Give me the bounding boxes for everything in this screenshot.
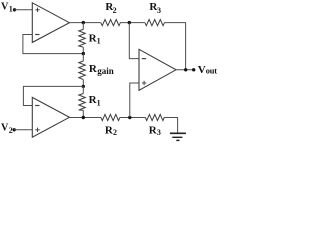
ground bbox=[170, 133, 186, 140]
svg-text:1: 1 bbox=[97, 37, 101, 46]
wire U1 feedback: - input to R1/Rgain node bbox=[23, 35, 83, 54]
op-amp U2 (bottom left) bbox=[32, 97, 69, 137]
wire R2 to node A bbox=[120, 22, 144, 24]
svg-text:1: 1 bbox=[97, 98, 101, 107]
svg-text:V: V bbox=[198, 64, 206, 76]
resistor R1 (top) bbox=[79, 23, 101, 54]
resistor R1 (bottom) bbox=[79, 86, 101, 117]
svg-text:2: 2 bbox=[113, 6, 117, 15]
resistor R3 (bottom) bbox=[145, 114, 164, 137]
input terminal V2 bbox=[1, 122, 16, 135]
wire R3 to ground bbox=[164, 118, 177, 134]
wire U2 feedback: Rgain node to - input bbox=[23, 86, 83, 105]
wire U1 output to top row bbox=[69, 22, 100, 24]
wire R3 to U3 output (feedback) bbox=[165, 23, 186, 70]
input terminal V1 bbox=[1, 2, 16, 14]
node Rgain/R1 junction bbox=[82, 85, 85, 88]
node R1/Rgain junction bbox=[82, 52, 85, 55]
resistor R2 (top) bbox=[101, 1, 121, 26]
wire V2 to op-amp U2 + input bbox=[14, 129, 32, 131]
node feedback/output junction bbox=[184, 68, 187, 71]
resistor R2 (bottom) bbox=[101, 114, 120, 137]
svg-text:2: 2 bbox=[113, 128, 117, 137]
node U1 output / R1 top bbox=[82, 21, 85, 24]
output terminal Vout bbox=[192, 64, 217, 76]
op-amp U3 (right) bbox=[139, 49, 176, 90]
svg-text:V: V bbox=[1, 2, 9, 13]
wire U2 output to bottom row bbox=[69, 117, 101, 119]
svg-text:2: 2 bbox=[9, 126, 13, 135]
resistor R3 (top, feedback) bbox=[145, 1, 165, 26]
op-amp U1 (top left) bbox=[32, 3, 69, 43]
resistor Rgain bbox=[79, 54, 114, 87]
node B: R2/R3 junction, to U3 + input bbox=[128, 83, 139, 119]
wire U3 output to Vout bbox=[176, 69, 194, 71]
svg-text:3: 3 bbox=[157, 128, 161, 137]
wire R2 to node B bbox=[120, 117, 146, 119]
svg-text:gain: gain bbox=[97, 66, 114, 76]
svg-text:1: 1 bbox=[9, 4, 13, 13]
node A: R2/R3 junction, to U3 - input bbox=[128, 21, 139, 59]
node U2 output / R1 bottom bbox=[82, 116, 85, 119]
svg-text:V: V bbox=[1, 122, 9, 133]
svg-text:3: 3 bbox=[157, 6, 161, 15]
svg-text:out: out bbox=[206, 67, 217, 76]
wire V1 to op-amp U1 + input bbox=[15, 9, 33, 11]
